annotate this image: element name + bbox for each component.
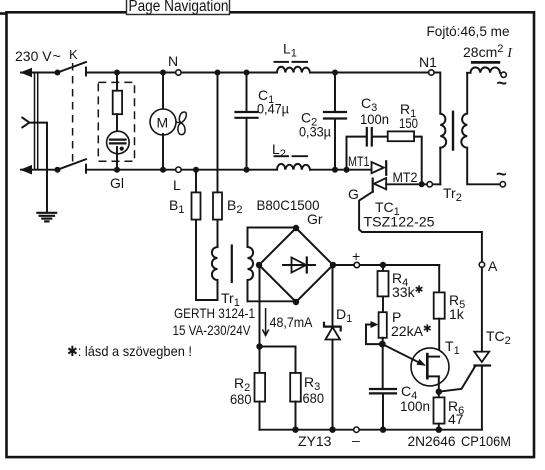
inductor L2 — [277, 164, 310, 170]
svg-text:100n: 100n — [360, 111, 389, 127]
switch K blade top — [58, 62, 87, 73]
junction B1 — [193, 167, 199, 173]
junction C2 bottom — [332, 167, 338, 173]
junction T1 B1 — [436, 389, 442, 395]
junction bridge left — [256, 262, 262, 268]
core dashes L2 — [275, 155, 289, 157]
svg-text:+: + — [352, 248, 360, 264]
wire MT2 — [386, 183, 440, 185]
terminal minus — [354, 427, 359, 432]
wire L segment after switch — [86, 169, 277, 171]
junction B2 — [215, 70, 221, 76]
capacitor C2 — [324, 73, 346, 170]
current arrow 48,7mA — [263, 308, 269, 336]
wire C3 to R1 — [373, 136, 388, 138]
svg-text:Page Navigation: Page Navigation — [129, 0, 229, 15]
svg-text:680: 680 — [303, 390, 325, 406]
zener diode D1 — [324, 265, 341, 430]
junction R4 top — [380, 262, 386, 268]
wire plus rail — [333, 264, 439, 266]
ground — [37, 213, 56, 222]
transformer Tr2 left winding — [440, 114, 446, 185]
svg-text:0,33µ: 0,33µ — [299, 124, 331, 140]
svg-text:~: ~ — [496, 164, 507, 184]
junction Gl bottom — [114, 167, 120, 173]
wire Tr1 to bridge bottom — [248, 300, 297, 302]
svg-text:Gl: Gl — [110, 175, 124, 191]
wire bottom rail — [260, 429, 482, 431]
terminal Tr2 left bottom — [427, 182, 432, 187]
choke coil — [467, 67, 501, 74]
transistor T1 2N2646 — [382, 344, 449, 392]
triac TC1 — [372, 161, 387, 191]
capacitor C3 — [367, 128, 372, 146]
wire motor branch top — [162, 73, 164, 111]
svg-text:N1: N1 — [419, 54, 437, 70]
svg-text:L: L — [173, 177, 181, 193]
svg-text:680: 680 — [230, 391, 252, 407]
terminal N — [176, 70, 181, 75]
svg-text:GERTH 3124-1: GERTH 3124-1 — [174, 305, 255, 321]
plug cord double line — [34, 73, 36, 170]
earth pin — [22, 118, 29, 128]
transformer Tr1 core — [231, 244, 233, 283]
junction switch bottom — [55, 167, 61, 173]
core dashes L1 — [275, 61, 289, 63]
wire motor branch bottom — [162, 134, 164, 170]
junction motor bottom — [160, 167, 166, 173]
wire fuse B1 branch — [195, 170, 197, 300]
svg-text:CP106M: CP106M — [461, 433, 511, 449]
junction bridge top — [293, 225, 299, 231]
junction rail C4 — [380, 427, 386, 433]
choke core bar — [471, 61, 500, 64]
junction C1 top — [244, 70, 250, 76]
transformer Tr2 right winding — [461, 73, 500, 185]
switch K blade bottom — [58, 159, 87, 170]
junction Gl top — [114, 70, 120, 76]
junction C3 — [344, 167, 350, 173]
svg-text:✱: lásd a szövegben !: ✱: lásd a szövegben ! — [67, 343, 192, 359]
wire R1 to MT2 — [414, 137, 422, 185]
wire L bottom rail — [21, 169, 58, 171]
svg-text:A: A — [488, 258, 498, 274]
svg-text:K: K — [69, 47, 78, 62]
transformer Tr1 primary — [196, 247, 218, 300]
wire to R3 — [260, 347, 296, 373]
svg-text:Gr: Gr — [307, 211, 323, 227]
wire L segment L2 to triac MT1 — [310, 169, 372, 171]
resistor in Gl unit — [113, 91, 122, 115]
wire gate G — [359, 192, 482, 265]
motor M — [150, 109, 176, 135]
wire Gl branch — [116, 73, 118, 93]
svg-text:ZY13: ZY13 — [298, 433, 332, 449]
wire — [116, 114, 118, 139]
capacitor C1 — [236, 73, 258, 170]
svg-text:MT2: MT2 — [393, 169, 418, 185]
terminal L — [176, 167, 181, 172]
terminal Tr2 right bottom — [500, 182, 505, 187]
wire N segment L1 to Tr2 — [310, 73, 440, 114]
svg-text:47: 47 — [448, 411, 464, 427]
wire plus to R5 — [438, 265, 440, 292]
resistor R6 — [434, 392, 445, 430]
thyristor TC2 — [439, 267, 490, 429]
junction bridge right — [330, 262, 336, 268]
terminal choke out — [501, 72, 506, 77]
bridge rectifier B80C1500 — [259, 228, 333, 302]
junction C2 top — [332, 70, 338, 76]
svg-text:230 V~: 230 V~ — [15, 48, 61, 64]
terminal plus — [354, 262, 359, 267]
wire pot to C4 — [382, 338, 384, 389]
junction MT2 R1 — [419, 181, 425, 187]
svg-text:M: M — [157, 115, 169, 131]
fan — [176, 112, 186, 135]
resistor R5 — [434, 292, 445, 356]
transformer Tr2 core — [452, 111, 454, 151]
svg-text:48,7mA: 48,7mA — [270, 314, 314, 330]
arrow plug pin top — [20, 68, 32, 78]
wire Tr1 to bridge top — [248, 227, 297, 229]
wire — [116, 147, 118, 170]
svg-text:G: G — [348, 186, 359, 202]
transformer Tr1 secondary — [248, 228, 254, 302]
svg-text:2N2646: 2N2646 — [408, 433, 456, 449]
switch coupling dashed line — [72, 63, 74, 166]
arrow plug pin bottom — [20, 165, 32, 175]
junction rail R3 — [292, 427, 298, 433]
svg-text:N: N — [168, 53, 178, 69]
svg-text:Fojtó:46,5 me: Fojtó:46,5 me — [427, 23, 510, 39]
svg-text:150: 150 — [399, 115, 418, 131]
svg-text:~: ~ — [497, 73, 508, 93]
terminal A — [479, 262, 484, 267]
svg-text:0,47µ: 0,47µ — [257, 101, 289, 117]
page navigation tab — [127, 0, 230, 15]
potentiometer P — [366, 312, 387, 344]
fuse B1 — [192, 192, 201, 219]
svg-text:15 VA-230/24V: 15 VA-230/24V — [173, 322, 252, 338]
svg-text:1k: 1k — [449, 306, 465, 322]
resistor R2 — [255, 347, 266, 430]
wire minus from bridge left — [258, 265, 261, 347]
wire N top rail — [21, 72, 58, 74]
terminal N1 — [429, 70, 434, 75]
wire C3 branch — [347, 137, 367, 170]
junction minus — [256, 343, 262, 349]
svg-text:MT1: MT1 — [348, 153, 370, 169]
junction C1 bottom — [244, 167, 250, 173]
svg-text:–: – — [352, 432, 360, 448]
svg-text:TSZ122-25: TSZ122-25 — [364, 214, 435, 230]
wire N segment after switch — [86, 72, 277, 74]
junction bridge bottom — [293, 299, 299, 305]
resistor R4 — [378, 265, 389, 312]
junction rail D1 — [329, 427, 335, 433]
glow lamp Gl — [107, 131, 130, 154]
inductor L1 — [277, 67, 310, 73]
junction rail R6 — [436, 427, 442, 433]
svg-text:100n: 100n — [400, 398, 430, 414]
wire earth — [29, 123, 47, 212]
fuse B2 — [213, 192, 222, 219]
resistor R1 — [388, 131, 414, 141]
junction pot bottom — [379, 341, 386, 348]
wire fuse B2 branch — [217, 73, 219, 248]
resistor R3 — [290, 373, 301, 430]
junction switch top — [55, 70, 61, 76]
junction motor top — [160, 70, 166, 76]
glow lamp unit dashed box — [98, 82, 134, 161]
capacitor C4 — [370, 389, 396, 430]
